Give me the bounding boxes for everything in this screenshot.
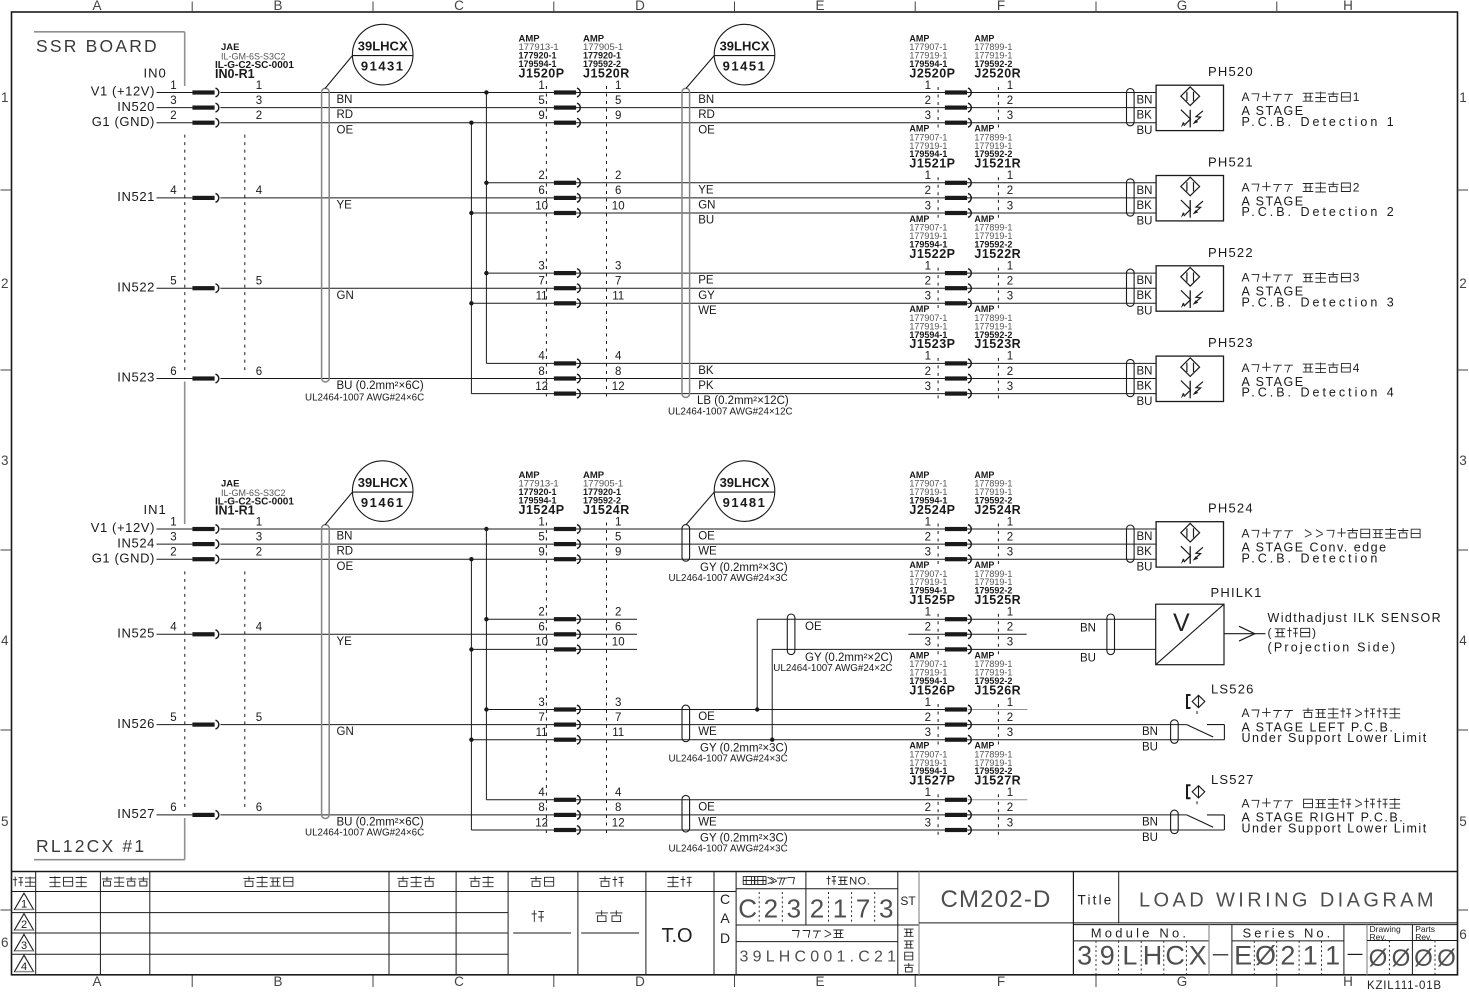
svg-text:39LHCX: 39LHCX <box>720 475 770 490</box>
connector J2520P/J2520R <box>937 87 939 128</box>
signature tsutsumi <box>532 910 544 922</box>
svg-text:39LHC001.C21: 39LHC001.C21 <box>740 949 901 966</box>
svg-text:J1524R: J1524R <box>583 503 630 517</box>
svg-text:(Projection Side): (Projection Side) <box>1268 641 1398 655</box>
svg-text:OE: OE <box>698 531 715 543</box>
wire J152x g3 r3 <box>471 302 1156 304</box>
connector J1521P/J1521R <box>937 177 939 218</box>
svg-text:A: A <box>1242 527 1251 541</box>
svg-text:2: 2 <box>1007 712 1013 724</box>
svg-text:BU: BU <box>1142 742 1158 754</box>
wire J152x g2 r2 <box>220 197 1156 199</box>
svg-text:A: A <box>1242 180 1251 194</box>
svg-text:1: 1 <box>615 80 621 92</box>
svg-text:BN: BN <box>1137 365 1153 377</box>
svg-text:1: 1 <box>925 607 931 619</box>
svg-text:BN: BN <box>337 94 353 106</box>
svg-text:2: 2 <box>925 622 931 634</box>
svg-text:7: 7 <box>856 894 870 924</box>
svg-text:GN: GN <box>698 200 715 212</box>
svg-text:2: 2 <box>925 802 931 814</box>
header ken-in <box>470 876 481 886</box>
svg-text:J1525P: J1525P <box>909 593 955 607</box>
svg-text:WE: WE <box>698 305 717 317</box>
header kanri NO. <box>826 876 836 885</box>
svg-text:3: 3 <box>256 95 262 107</box>
svg-text:1: 1 <box>1007 351 1013 363</box>
svg-text:X: X <box>1189 941 1207 971</box>
svg-text:IN523: IN523 <box>117 370 155 385</box>
svg-text:KZIL111-01B: KZIL111-01B <box>1367 980 1442 992</box>
svg-text:V1 (+12V): V1 (+12V) <box>91 520 155 535</box>
cable sheath 3C group 4 <box>682 795 690 832</box>
svg-text:BU: BU <box>698 215 714 227</box>
svg-text:8: 8 <box>615 366 621 378</box>
svg-text:WE: WE <box>698 546 717 558</box>
header filename <box>792 931 799 938</box>
svg-text:GN: GN <box>337 726 354 738</box>
svg-text:IN521: IN521 <box>117 189 155 204</box>
svg-text:6: 6 <box>615 622 621 634</box>
connector J1526P/J1526R <box>937 704 939 745</box>
svg-text:9: 9 <box>538 547 544 559</box>
svg-text:Under Support Lower Limit: Under Support Lower Limit <box>1242 821 1428 835</box>
svg-text:G1 (GND): G1 (GND) <box>92 550 155 565</box>
svg-text:3: 3 <box>925 637 931 649</box>
svg-text:PH522: PH522 <box>1208 245 1254 260</box>
svg-text:3: 3 <box>1007 817 1013 829</box>
svg-text:7: 7 <box>615 276 621 288</box>
svg-text:BN: BN <box>1142 817 1158 829</box>
header kenzu <box>600 876 611 886</box>
svg-text:2: 2 <box>256 547 262 559</box>
svg-text:WE: WE <box>698 817 717 829</box>
connector J1520P/J1520R dashed boundaries <box>545 86 547 398</box>
svg-text:NO.: NO. <box>849 875 870 887</box>
title block table <box>12 871 1458 873</box>
svg-text:B: B <box>273 0 282 13</box>
limit switch LS526 <box>1171 720 1179 744</box>
svg-text:2: 2 <box>925 185 931 197</box>
svg-text:4: 4 <box>538 787 545 799</box>
svg-text:8: 8 <box>538 366 544 378</box>
wire J152x g4 r2 <box>220 378 1156 380</box>
row labels right <box>1458 189 1469 191</box>
svg-text:3: 3 <box>615 260 621 272</box>
svg-text:D: D <box>635 0 645 13</box>
svg-text:1: 1 <box>925 516 931 528</box>
svg-text:3: 3 <box>1007 381 1013 393</box>
sensor PH523 <box>1127 359 1135 396</box>
svg-text:1: 1 <box>170 80 176 92</box>
svg-text:3: 3 <box>925 291 931 303</box>
svg-text:4: 4 <box>170 622 177 634</box>
svg-text:OE: OE <box>698 801 715 813</box>
svg-text:39LHCX: 39LHCX <box>358 39 408 54</box>
wire lower g3 r1 OE <box>486 709 967 711</box>
connector J1525P/J1525R <box>937 614 939 655</box>
bus GND vertical lower <box>470 559 472 830</box>
svg-text:5: 5 <box>170 712 176 724</box>
cable callout 39LHCX 91431 <box>352 24 413 85</box>
svg-text:OE: OE <box>698 124 715 136</box>
wire lower g2 r2 IN525 stub <box>220 633 637 635</box>
svg-text:Title: Title <box>1078 893 1114 908</box>
svg-text:YE: YE <box>337 200 353 212</box>
svg-text:BN: BN <box>1137 95 1153 107</box>
svg-text:1: 1 <box>1007 80 1013 92</box>
svg-text:4: 4 <box>256 185 263 197</box>
svg-text:12: 12 <box>535 381 548 393</box>
svg-text:6: 6 <box>538 185 544 197</box>
svg-text:1: 1 <box>1325 941 1340 971</box>
svg-text:J1526P: J1526P <box>909 683 955 697</box>
svg-text:3: 3 <box>615 697 621 709</box>
svg-text:2: 2 <box>1007 531 1013 543</box>
cable sheath 3C group 1 <box>682 525 690 562</box>
svg-text:BK: BK <box>1137 200 1153 212</box>
svg-text:3: 3 <box>170 95 176 107</box>
svg-text:J1520R: J1520R <box>583 66 630 80</box>
wire J152x g1 r2 <box>220 107 1156 109</box>
svg-text:9: 9 <box>1100 941 1115 971</box>
cable sheath 39LHCX 91451 <box>682 88 690 397</box>
svg-text:1: 1 <box>925 260 931 272</box>
svg-text:2: 2 <box>615 607 621 619</box>
svg-text:2: 2 <box>170 547 176 559</box>
svg-text:2: 2 <box>615 170 621 182</box>
svg-text:5: 5 <box>1 814 9 829</box>
svg-text:3: 3 <box>1007 291 1013 303</box>
svg-text:6: 6 <box>615 185 621 197</box>
header shounin <box>668 876 679 887</box>
svg-text:IN0: IN0 <box>144 66 167 81</box>
svg-text:3: 3 <box>787 894 801 924</box>
svg-text:4: 4 <box>615 787 622 799</box>
svg-text:A: A <box>1242 797 1251 811</box>
svg-text:1: 1 <box>256 516 262 528</box>
svg-text:1: 1 <box>1 90 9 105</box>
sensor PHILK1 V box <box>1107 614 1115 655</box>
wire lower g2 r3 GY to PHILK1 <box>471 648 637 650</box>
svg-text:3: 3 <box>1459 453 1467 468</box>
svg-text:Ø: Ø <box>1369 945 1388 972</box>
bus GND vertical upper <box>470 123 472 394</box>
svg-text:ST: ST <box>900 894 916 908</box>
svg-text:2: 2 <box>538 170 544 182</box>
svg-text:IN522: IN522 <box>117 279 155 294</box>
svg-text:UL2464-1007 AWG#24×3C: UL2464-1007 AWG#24×3C <box>669 844 788 855</box>
svg-text:C: C <box>1165 941 1185 971</box>
svg-text:1: 1 <box>615 516 621 528</box>
svg-text:E: E <box>815 0 824 13</box>
svg-text:P.C.B. Detection: P.C.B. Detection <box>1242 551 1381 565</box>
svg-text:4: 4 <box>1353 361 1360 375</box>
svg-text:PH523: PH523 <box>1208 335 1254 350</box>
svg-text:V: V <box>1173 609 1190 637</box>
svg-text:3: 3 <box>538 697 544 709</box>
svg-text:5: 5 <box>538 531 544 543</box>
cable sheath 3C group 3 <box>682 705 690 742</box>
svg-text:H: H <box>1343 0 1353 13</box>
svg-text:BK: BK <box>1137 381 1153 393</box>
svg-text:PE: PE <box>698 275 714 287</box>
svg-text:IN525: IN525 <box>117 626 155 641</box>
sensor PH522 <box>1127 269 1135 306</box>
svg-text:8: 8 <box>538 802 544 814</box>
svg-text:Widthadjust ILK SENSOR: Widthadjust ILK SENSOR <box>1268 611 1443 625</box>
svg-text:P.C.B. Detection 2: P.C.B. Detection 2 <box>1242 205 1397 219</box>
connector J1524P/J1524R dashed boundaries <box>545 523 547 835</box>
svg-text:J1524P: J1524P <box>519 503 565 517</box>
svg-text:BU: BU <box>1137 396 1153 408</box>
svg-text:2: 2 <box>1280 941 1295 971</box>
svg-text:(: ( <box>1268 626 1273 640</box>
svg-text:6: 6 <box>256 366 262 378</box>
svg-text:L: L <box>1122 941 1137 971</box>
svg-text:IN526: IN526 <box>117 716 155 731</box>
svg-text:E: E <box>815 974 824 989</box>
svg-text:YE: YE <box>337 636 353 648</box>
svg-text:3: 3 <box>879 894 893 924</box>
wire lower g3 r3 to LS526 <box>471 739 1224 741</box>
svg-text:V1 (+12V): V1 (+12V) <box>91 84 155 99</box>
svg-text:UL2464-1007 AWG#24×12C: UL2464-1007 AWG#24×12C <box>668 407 793 418</box>
svg-text:P.C.B. Detection 4: P.C.B. Detection 4 <box>1242 386 1397 400</box>
sensor PH524 <box>1127 525 1135 562</box>
svg-text:5: 5 <box>615 95 621 107</box>
svg-text:2: 2 <box>810 894 824 924</box>
svg-text:D: D <box>720 930 730 946</box>
svg-text:IN527: IN527 <box>117 806 155 821</box>
connector J1523P/J1523R <box>937 358 939 399</box>
svg-text:OE: OE <box>698 711 715 723</box>
svg-text:CM202-D: CM202-D <box>940 886 1051 913</box>
svg-text:1: 1 <box>1353 90 1360 104</box>
svg-text:OE: OE <box>337 561 354 573</box>
svg-text:6: 6 <box>1 935 9 950</box>
arrow PHILK1 output <box>1224 633 1266 635</box>
svg-text:12: 12 <box>612 381 625 393</box>
bus +12V vertical lower <box>485 529 487 800</box>
svg-text:2: 2 <box>925 276 931 288</box>
svg-text:3: 3 <box>1007 200 1013 212</box>
svg-text:BU: BU <box>1137 125 1153 137</box>
svg-text:3: 3 <box>256 531 262 543</box>
svg-text:5: 5 <box>256 276 262 288</box>
svg-text:3: 3 <box>925 110 931 122</box>
svg-text:BU: BU <box>1137 306 1153 318</box>
svg-text:7: 7 <box>538 712 544 724</box>
wire J152x g1 r1 <box>220 92 1156 94</box>
svg-text:LB (0.2mm²×12C): LB (0.2mm²×12C) <box>697 395 789 407</box>
svg-text:4: 4 <box>615 351 622 363</box>
svg-text:9: 9 <box>615 547 621 559</box>
wire lower g4 r3 to LS527 <box>471 829 1224 831</box>
svg-text:Series No.: Series No. <box>1243 926 1334 941</box>
svg-text:J1525R: J1525R <box>974 593 1021 607</box>
svg-text:2: 2 <box>1007 622 1013 634</box>
svg-text:BU (0.2mm²×6C): BU (0.2mm²×6C) <box>337 380 424 392</box>
svg-text:BN: BN <box>1142 726 1158 738</box>
svg-text:BN: BN <box>1080 623 1096 635</box>
wire lower g1 r1 to PH524 <box>220 528 1156 530</box>
svg-text:Ø: Ø <box>1437 945 1456 972</box>
svg-text:2: 2 <box>1007 366 1013 378</box>
svg-text:PK: PK <box>698 380 714 392</box>
svg-text:Ø: Ø <box>1414 945 1433 972</box>
svg-text:4: 4 <box>1 633 9 648</box>
svg-text:2: 2 <box>1007 276 1013 288</box>
svg-text:OE: OE <box>805 621 822 633</box>
wire J152x g4 r3 <box>471 393 1156 395</box>
wire J152x g2 r3 <box>471 212 1156 214</box>
svg-text:Under Support Lower Limit: Under Support Lower Limit <box>1242 731 1428 745</box>
svg-text:J1522P: J1522P <box>909 247 955 261</box>
wire lower g2 r1 OE to PHILK1 <box>486 618 637 620</box>
svg-text:BU: BU <box>1080 653 1096 665</box>
dash separator 2 <box>1348 953 1363 955</box>
svg-text:A: A <box>1242 271 1251 285</box>
svg-text:10: 10 <box>612 637 625 649</box>
svg-text:4: 4 <box>1459 633 1467 648</box>
svg-text:J2520P: J2520P <box>909 66 955 80</box>
svg-text:2: 2 <box>764 894 778 924</box>
svg-text:1: 1 <box>1007 260 1013 272</box>
svg-text:BK: BK <box>1137 290 1153 302</box>
svg-text:UL2464-1007 AWG#24×3C: UL2464-1007 AWG#24×3C <box>669 753 788 764</box>
svg-text:BU: BU <box>1142 832 1158 844</box>
connector J2524P/J2524R <box>937 524 939 565</box>
connector J1527P/J1527R <box>937 794 939 835</box>
svg-text:39LHCX: 39LHCX <box>358 475 408 490</box>
svg-text:1: 1 <box>170 516 176 528</box>
svg-text:9: 9 <box>615 110 621 122</box>
svg-text:1: 1 <box>925 787 931 799</box>
svg-text:RD: RD <box>337 109 354 121</box>
svg-text:A: A <box>1242 361 1251 375</box>
cable sheath 39LHCX 91431 <box>322 88 330 382</box>
svg-text:UL2464-1007 AWG#24×2C: UL2464-1007 AWG#24×2C <box>773 663 892 674</box>
PHILK1 tap verticals <box>756 619 758 709</box>
svg-text:91431: 91431 <box>361 59 405 74</box>
svg-text:A: A <box>92 974 101 989</box>
module series section <box>1073 924 1457 926</box>
svg-text:2: 2 <box>1007 95 1013 107</box>
bus +12V vertical upper <box>485 93 487 364</box>
svg-text:J2520R: J2520R <box>974 66 1021 80</box>
svg-text:G: G <box>1177 974 1188 989</box>
svg-text:9: 9 <box>538 110 544 122</box>
control number block <box>736 888 898 890</box>
svg-text:1: 1 <box>925 697 931 709</box>
svg-text:1: 1 <box>1303 941 1318 971</box>
svg-text:5: 5 <box>1459 814 1467 829</box>
svg-text:G: G <box>1177 0 1188 13</box>
connector IN1-R1 dashed boundaries <box>184 571 186 810</box>
svg-text:3: 3 <box>925 200 931 212</box>
svg-text:3: 3 <box>1007 637 1013 649</box>
svg-text:91481: 91481 <box>723 495 767 510</box>
svg-text:10: 10 <box>612 200 625 212</box>
svg-text:3: 3 <box>1007 110 1013 122</box>
svg-text:A: A <box>1242 90 1251 104</box>
svg-text:UL2464-1007 AWG#24×6C: UL2464-1007 AWG#24×6C <box>305 828 424 839</box>
column labels top <box>191 2 193 13</box>
svg-text:2: 2 <box>1007 802 1013 814</box>
svg-text:2: 2 <box>1007 185 1013 197</box>
svg-text:1: 1 <box>1459 90 1467 105</box>
svg-text:4: 4 <box>170 185 177 197</box>
header bukka code <box>746 877 754 885</box>
svg-text:1: 1 <box>833 894 847 924</box>
svg-text:GY: GY <box>698 290 715 302</box>
svg-text:39LHCX: 39LHCX <box>720 39 770 54</box>
svg-text:BK: BK <box>698 365 714 377</box>
svg-text:UL2464-1007 AWG#24×6C: UL2464-1007 AWG#24×6C <box>305 392 424 403</box>
svg-text:H: H <box>1343 974 1353 989</box>
svg-text:F: F <box>997 974 1005 989</box>
svg-text:3: 3 <box>925 727 931 739</box>
svg-text:GN: GN <box>337 290 354 302</box>
svg-text:6: 6 <box>170 802 176 814</box>
svg-text:6: 6 <box>170 366 176 378</box>
svg-text:P.C.B. Detection 3: P.C.B. Detection 3 <box>1242 295 1397 309</box>
svg-text:RD: RD <box>337 546 354 558</box>
svg-text:H: H <box>1143 941 1163 971</box>
svg-text:3: 3 <box>170 531 176 543</box>
svg-text:7: 7 <box>615 712 621 724</box>
svg-text:5: 5 <box>538 95 544 107</box>
cable callout 39LHCX 91461 <box>352 461 413 522</box>
svg-text:3: 3 <box>1007 547 1013 559</box>
svg-text:3: 3 <box>538 260 544 272</box>
wire lower g1 r2 to PH524 <box>220 543 1156 545</box>
svg-text:2: 2 <box>1353 180 1360 194</box>
svg-text:BN: BN <box>1137 531 1153 543</box>
wire lower g4 r1 OE <box>486 799 967 801</box>
svg-text:2: 2 <box>925 366 931 378</box>
svg-text:PH524: PH524 <box>1208 501 1254 516</box>
svg-text:3: 3 <box>1 453 9 468</box>
revision triangles <box>15 893 34 909</box>
svg-text:6: 6 <box>256 802 262 814</box>
svg-text:12: 12 <box>612 817 625 829</box>
svg-text:91451: 91451 <box>723 59 767 74</box>
svg-text:7: 7 <box>538 276 544 288</box>
svg-text:PH520: PH520 <box>1208 64 1254 79</box>
svg-text:1: 1 <box>1007 516 1013 528</box>
svg-text:LOAD WIRING DIAGRAM: LOAD WIRING DIAGRAM <box>1139 890 1437 912</box>
svg-text:J1521P: J1521P <box>909 157 955 171</box>
svg-text:IN0-R1: IN0-R1 <box>215 67 255 81</box>
connector IN0-R1 dashed boundaries <box>184 135 186 375</box>
svg-text:J1523R: J1523R <box>974 337 1021 351</box>
wire lower g4 r2 IN527 to LS527 <box>220 814 1186 816</box>
svg-text:): ) <box>1312 626 1317 640</box>
svg-text:J1523P: J1523P <box>909 337 955 351</box>
svg-text:11: 11 <box>612 291 624 303</box>
header fugou <box>13 877 23 887</box>
svg-text:1: 1 <box>1007 170 1013 182</box>
svg-text:J1522R: J1522R <box>974 247 1021 261</box>
svg-text:4: 4 <box>538 351 545 363</box>
svg-text:1: 1 <box>1007 697 1013 709</box>
svg-text:J1520P: J1520P <box>519 66 565 80</box>
svg-text:2: 2 <box>925 712 931 724</box>
header kaitei sha <box>398 876 409 886</box>
svg-text:UL2464-1007 AWG#24×3C: UL2464-1007 AWG#24×3C <box>669 573 788 584</box>
